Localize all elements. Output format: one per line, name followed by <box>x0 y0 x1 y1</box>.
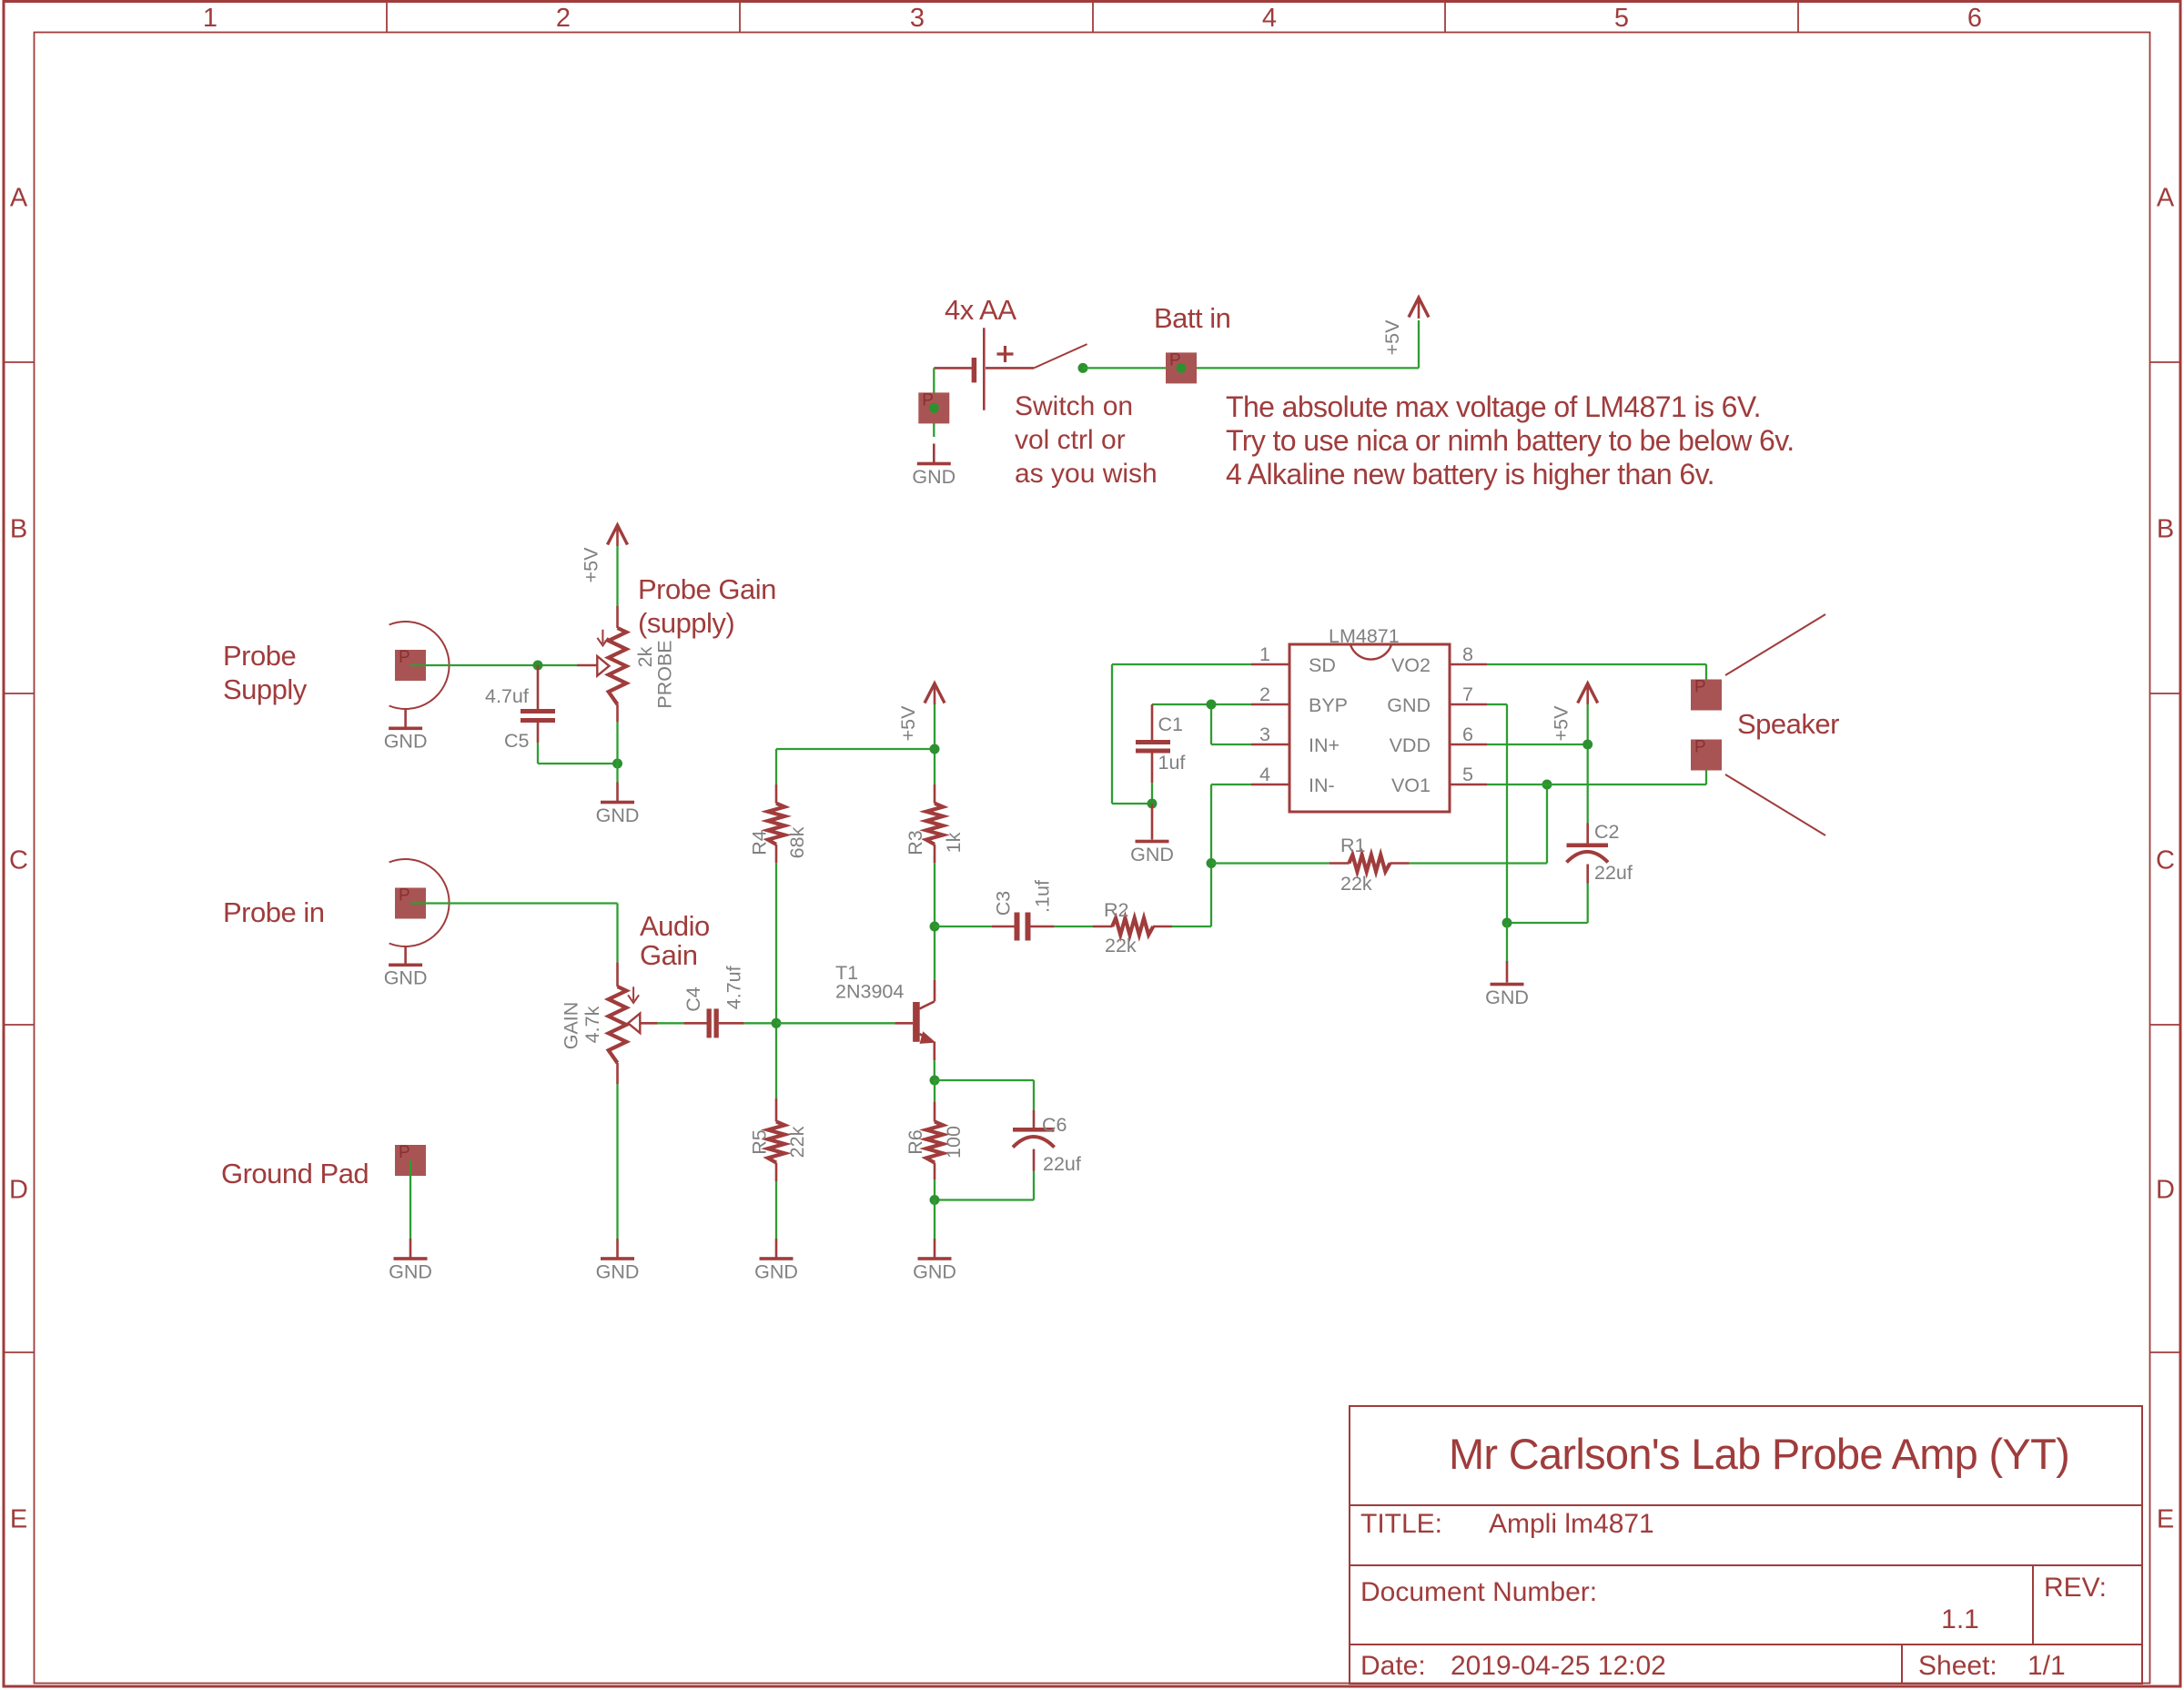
svg-text:R2: R2 <box>1104 899 1128 921</box>
ground GND probe in connector <box>384 946 428 989</box>
wire C6 bottom to R6 bottom <box>935 1171 1034 1200</box>
pad P Probe in <box>395 888 426 919</box>
wire C5 bottom to pot bottom <box>538 743 618 764</box>
svg-text:6: 6 <box>1967 4 1982 33</box>
svg-text:2: 2 <box>1259 683 1270 705</box>
resistor R3 1k <box>926 784 943 863</box>
svg-text:4.7uf: 4.7uf <box>723 966 744 1009</box>
svg-text:2: 2 <box>556 4 571 33</box>
ground GND audio gain pot <box>596 1239 640 1283</box>
svg-text:D: D <box>2156 1176 2175 1205</box>
wire pin7 GND net <box>1487 704 1507 923</box>
resistor R6 100 <box>926 1080 943 1200</box>
svg-text:Ground Pad: Ground Pad <box>221 1158 369 1189</box>
pad P speaker - <box>1691 740 1722 771</box>
svg-text:The absolute max voltage of LM: The absolute max voltage of LM4871 is 6V… <box>1226 390 1761 423</box>
wire C3 to R2 <box>1055 926 1093 927</box>
svg-text:GND: GND <box>596 1261 640 1283</box>
svg-text:1uf: 1uf <box>1158 752 1186 774</box>
svg-text:Supply: Supply <box>223 673 308 705</box>
svg-text:5: 5 <box>1614 4 1629 33</box>
ground GND emitter <box>913 1239 956 1283</box>
svg-text:LM4871: LM4871 <box>1329 625 1400 647</box>
wire junction to T1 base <box>776 1022 913 1024</box>
svg-text:P: P <box>399 648 410 667</box>
svg-text:4 Alkaline new battery is high: 4 Alkaline new battery is higher than 6v… <box>1226 458 1714 491</box>
wire GAIN pot bottom to GND <box>616 1084 618 1239</box>
capacitor C2 22uf (polarized) <box>1567 824 1609 884</box>
pin 3 IN+ <box>1259 724 1340 756</box>
wire switch to +5V (Batt in net) <box>1083 320 1419 368</box>
junction GND net / C2 <box>1502 918 1512 928</box>
wire probe in to GAIN pot top <box>410 904 618 987</box>
capacitor C1 1uf <box>1136 704 1170 804</box>
ground GND C1 <box>1130 804 1174 865</box>
svg-text:Batt in: Batt in <box>1154 302 1230 334</box>
label Probe Supply <box>223 640 308 705</box>
svg-text:GND: GND <box>912 466 955 488</box>
wire +5V to pot top <box>616 546 618 606</box>
wire R6 bottom to GND <box>934 1200 935 1240</box>
junction R6 bottom / C6 <box>930 1195 940 1205</box>
wire VO1 to speaker <box>1487 755 1706 785</box>
potentiometer GAIN 4.7k <box>609 987 641 1084</box>
svg-text:B: B <box>2157 515 2174 544</box>
svg-text:C3: C3 <box>993 891 1015 916</box>
svg-text:3: 3 <box>910 4 925 33</box>
svg-text:4x AA: 4x AA <box>945 294 1016 326</box>
capacitor C5 4.7uf <box>521 665 555 743</box>
svg-text:B: B <box>10 515 27 544</box>
svg-text:22k: 22k <box>786 1126 808 1158</box>
svg-text:4: 4 <box>1262 4 1277 33</box>
svg-text:Sheet:: Sheet: <box>1918 1651 1997 1681</box>
pin 6 VDD <box>1390 724 1473 756</box>
junction pot bottom / C5 <box>612 759 622 769</box>
svg-text:A: A <box>10 184 28 213</box>
wire +5V to C2 <box>1587 704 1589 824</box>
wire SD to GND net <box>1112 664 1251 804</box>
svg-text:BYP: BYP <box>1309 694 1348 716</box>
svg-text:P: P <box>1694 678 1706 697</box>
svg-text:C2: C2 <box>1594 821 1619 843</box>
svg-text:P: P <box>1694 738 1706 757</box>
svg-text:C5: C5 <box>504 730 530 752</box>
svg-text:R5: R5 <box>749 1129 771 1155</box>
junction C5 top <box>533 661 543 671</box>
wire R3 to collector <box>934 863 935 1001</box>
svg-text:GAIN: GAIN <box>561 1002 582 1050</box>
svg-text:R4: R4 <box>749 830 771 855</box>
svg-text:IN-: IN- <box>1309 774 1335 796</box>
wire R4 to base junction <box>775 863 777 1098</box>
svg-text:REV:: REV: <box>2044 1573 2107 1603</box>
pad P Batt in <box>1166 352 1197 383</box>
svg-text:PROBE: PROBE <box>654 640 676 708</box>
wire wiper to C4 <box>640 1022 683 1025</box>
speaker symbol lines <box>1725 614 1825 835</box>
wire VDD to +5V <box>1487 744 1588 745</box>
svg-text:6: 6 <box>1462 724 1473 745</box>
svg-text:C4: C4 <box>682 987 704 1012</box>
svg-text:Document Number:: Document Number: <box>1360 1577 1597 1607</box>
wire collector junction to C3 <box>935 926 1015 927</box>
svg-text:SD: SD <box>1309 654 1336 676</box>
svg-text:C6: C6 <box>1042 1114 1067 1136</box>
svg-text:A: A <box>2157 184 2175 213</box>
capacitor C3 .1uf <box>1015 913 1055 941</box>
svg-text:GND: GND <box>596 805 640 826</box>
junction base / C4 / R4 / R5 <box>772 1018 782 1028</box>
svg-text:(supply): (supply) <box>638 607 734 639</box>
svg-text:vol ctrl or: vol ctrl or <box>1015 425 1126 455</box>
svg-text:as you wish: as you wish <box>1015 459 1158 489</box>
svg-text:GND: GND <box>1485 987 1529 1008</box>
svg-text:R3: R3 <box>905 830 926 855</box>
junction BYP / IN+ <box>1207 700 1217 710</box>
svg-text:68k: 68k <box>786 826 808 858</box>
supply +5V (probe gain pot) <box>581 525 628 582</box>
capacitor C4 4.7uf <box>683 1008 743 1037</box>
svg-text:C: C <box>9 846 28 875</box>
wire emitter junction to C6 <box>935 1080 1034 1110</box>
svg-text:E: E <box>2157 1505 2174 1534</box>
supply +5V (R3/R4) <box>897 683 945 741</box>
wire R5 to GND <box>775 1181 777 1239</box>
svg-text:GND: GND <box>754 1261 798 1283</box>
note switch <box>1015 391 1158 489</box>
connector Probe Supply <box>389 622 450 709</box>
svg-text:GND: GND <box>913 1261 956 1283</box>
svg-text:P: P <box>399 1143 410 1162</box>
svg-text:TITLE:: TITLE: <box>1360 1509 1442 1539</box>
wire battery- to pad/GND <box>933 368 935 437</box>
wire C2 bottom to GND net <box>1507 884 1588 924</box>
svg-text:R6: R6 <box>905 1129 926 1155</box>
wire VO2 to speaker <box>1487 664 1706 695</box>
svg-text:Switch on: Switch on <box>1015 391 1133 421</box>
svg-text:C1: C1 <box>1158 713 1183 735</box>
svg-text:IN+: IN+ <box>1309 734 1340 756</box>
svg-text:Probe: Probe <box>223 640 296 672</box>
pad P Ground Pad <box>395 1145 426 1176</box>
svg-text:+5V: +5V <box>1381 319 1403 356</box>
label Probe Gain (supply) <box>638 573 776 639</box>
svg-text:7: 7 <box>1462 683 1473 705</box>
svg-text:4.7k: 4.7k <box>581 1006 603 1043</box>
svg-text:2k: 2k <box>634 646 656 667</box>
pin 2 BYP <box>1259 683 1348 716</box>
svg-text:8: 8 <box>1462 643 1473 665</box>
supply +5V (VDD) <box>1551 683 1598 741</box>
ground GND power <box>1485 923 1529 1008</box>
svg-text:22k: 22k <box>1340 873 1372 895</box>
junction VDD / +5V / C2 <box>1582 740 1592 750</box>
wire +5V rail to R4/R3 <box>776 704 935 784</box>
battery B1 4x AA <box>934 328 1034 410</box>
wire R2 to IN- <box>1172 784 1251 926</box>
svg-text:GND: GND <box>1387 694 1431 716</box>
svg-text:D: D <box>9 1176 28 1205</box>
svg-text:+5V: +5V <box>1551 705 1572 742</box>
wire ground pad to GND <box>409 1160 411 1239</box>
svg-text:Speaker: Speaker <box>1737 708 1839 740</box>
wire pot bottom to GND <box>616 722 618 783</box>
svg-text:E: E <box>10 1505 27 1534</box>
note battery warning <box>1226 390 1795 491</box>
svg-text:C: C <box>2156 846 2175 875</box>
transistor T1 2N3904 <box>913 1001 935 1060</box>
switch S1 (on vol ctrl) <box>1034 344 1087 373</box>
resistor R4 68k <box>768 784 784 863</box>
svg-text:22uf: 22uf <box>1043 1153 1081 1175</box>
junction VO1 / R1 <box>1542 780 1552 790</box>
wire BYP / IN+ to C1 <box>1152 704 1251 744</box>
svg-text:R1: R1 <box>1340 835 1365 856</box>
ground GND R5 <box>754 1239 798 1283</box>
pin 8 VO2 <box>1391 643 1473 676</box>
resistor R1 22k (feedback) <box>1211 784 1547 872</box>
wire emitter to R6 <box>934 1060 935 1080</box>
svg-text:GND: GND <box>384 967 428 989</box>
ground GND probe supply connector <box>384 709 428 753</box>
svg-text:Date:: Date: <box>1360 1651 1426 1681</box>
connector Probe in <box>389 859 450 946</box>
wire probe supply to pot wiper <box>410 664 598 666</box>
junction IN- / R1 <box>1207 858 1217 868</box>
svg-text:GND: GND <box>389 1261 432 1283</box>
svg-text:Audio: Audio <box>640 910 710 942</box>
svg-text:4: 4 <box>1259 764 1270 785</box>
svg-text:Probe Gain: Probe Gain <box>638 573 776 605</box>
svg-text:4.7uf: 4.7uf <box>485 685 529 707</box>
pin 4 IN- <box>1259 764 1335 796</box>
pad P Probe Supply <box>395 650 426 681</box>
svg-text:1: 1 <box>203 4 217 33</box>
svg-text:.1uf: .1uf <box>1032 880 1054 913</box>
svg-text:GND: GND <box>1130 844 1174 865</box>
svg-text:+5V: +5V <box>897 705 919 742</box>
junction +5V / R3 <box>930 744 940 754</box>
resistor R2 22k <box>1093 918 1172 935</box>
pin 1 SD <box>1259 643 1336 676</box>
svg-text:Try to use nica or nimh batter: Try to use nica or nimh battery to be be… <box>1226 424 1795 457</box>
supply +5V (battery) <box>1381 298 1429 355</box>
svg-text:2N3904: 2N3904 <box>835 981 904 1003</box>
svg-text:VO2: VO2 <box>1391 654 1431 676</box>
svg-text:22uf: 22uf <box>1594 862 1633 884</box>
svg-text:22k: 22k <box>1105 935 1137 956</box>
svg-text:GND: GND <box>384 731 428 753</box>
svg-text:Probe in: Probe in <box>223 896 324 928</box>
svg-text:100: 100 <box>943 1126 965 1159</box>
svg-text:1.1: 1.1 <box>1941 1604 1979 1634</box>
svg-text:+5V: +5V <box>581 547 602 583</box>
ground GND ground pad <box>389 1239 432 1283</box>
op-amp U1 LM4871 <box>1251 644 1487 812</box>
potentiometer PROBE 2k <box>597 606 626 723</box>
svg-text:1/1: 1/1 <box>2027 1651 2066 1681</box>
ground GND battery <box>912 444 955 489</box>
label Audio Gain <box>640 910 710 971</box>
svg-text:VDD: VDD <box>1390 734 1431 756</box>
svg-text:5: 5 <box>1462 764 1473 785</box>
svg-text:1k: 1k <box>943 832 965 853</box>
capacitor C6 22uf (polarized) <box>1013 1110 1055 1171</box>
svg-text:VO1: VO1 <box>1391 774 1431 796</box>
wire C4 to base junction <box>744 1022 776 1024</box>
pin 7 GND <box>1387 683 1473 716</box>
svg-text:2019-04-25 12:02: 2019-04-25 12:02 <box>1451 1651 1666 1681</box>
ground GND probe gain pot <box>596 783 640 827</box>
junction emitter / R6 / C6 <box>930 1076 940 1086</box>
svg-text:1: 1 <box>1259 643 1270 665</box>
svg-text:Gain: Gain <box>640 939 697 971</box>
pad P speaker + <box>1691 680 1722 711</box>
pad P battery negative <box>918 392 949 423</box>
resistor R5 22k <box>768 1098 784 1181</box>
pin 5 VO1 <box>1391 764 1473 796</box>
svg-text:Ampli lm4871: Ampli lm4871 <box>1489 1509 1654 1539</box>
svg-text:Mr Carlson's Lab Probe Amp (YT: Mr Carlson's Lab Probe Amp (YT) <box>1449 1430 2069 1478</box>
title block <box>1350 1406 2142 1684</box>
junction C1 bottom / SD net <box>1148 799 1158 809</box>
svg-text:3: 3 <box>1259 724 1270 745</box>
junction collector / C3 <box>930 922 940 932</box>
svg-text:P: P <box>399 886 410 906</box>
